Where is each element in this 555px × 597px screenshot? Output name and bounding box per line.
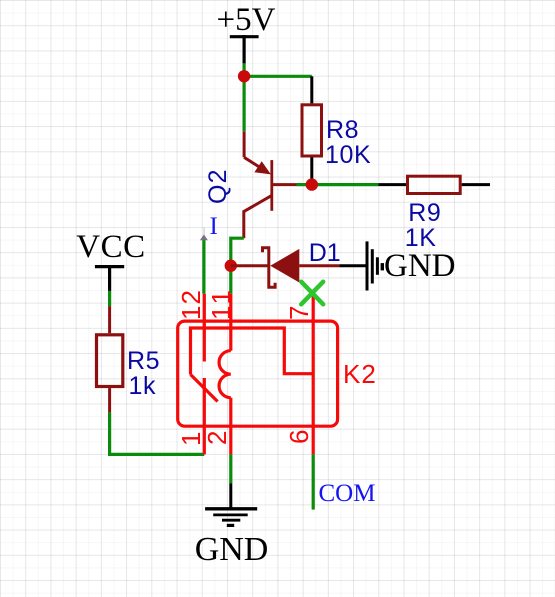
- power port +5V bar: [230, 35, 259, 63]
- label GND (bottom): [195, 533, 269, 567]
- relay K2 pin 2 (coil bottom): [229, 398, 232, 455]
- earth ground symbol: [205, 509, 257, 526]
- relay K2 inner contact frame: [191, 328, 314, 375]
- resistor R8 body: [302, 105, 322, 156]
- diode D1 anode wire from junction (dark red): [231, 264, 269, 267]
- label GND (by D1): [384, 250, 456, 283]
- wire pin 2 to GND (green): [229, 454, 232, 483]
- resistor R5 body: [97, 335, 123, 387]
- label VCC: [76, 231, 145, 264]
- resistor R9 body: [408, 176, 461, 193]
- pin number 2 (rotated): [204, 430, 230, 445]
- pin number 7 (rotated): [286, 305, 312, 320]
- resistor R5 top lead (dark red): [108, 306, 111, 333]
- resistor R8 top lead (black): [310, 76, 313, 103]
- relay K2 pin 7 / pin 6 line: [312, 295, 315, 455]
- wire I net (green vertical): [202, 237, 205, 294]
- junction dot B: [306, 178, 318, 190]
- relay K2 body: [178, 321, 338, 426]
- resistor R9 left lead (black): [378, 183, 406, 186]
- diode D1 schottky cathode bar: [263, 248, 276, 288]
- no-ERC cross on pin 7: [301, 282, 323, 305]
- transistor Q2 emitter diagonal: [244, 157, 262, 169]
- pin number 12 (rotated): [178, 289, 204, 320]
- net label COM: [319, 481, 376, 506]
- designator K2: [343, 361, 377, 387]
- wire base to R9 (green): [297, 183, 379, 186]
- value 1K: [405, 226, 437, 251]
- relay K2 pin 11 (coil top): [229, 294, 232, 351]
- pin number 1 (rotated): [178, 430, 204, 445]
- designator R5: [127, 349, 160, 374]
- faint directive stub above I net arrow: [203, 227, 205, 235]
- power ground symbol (bar style): [367, 241, 382, 290]
- diode D1 triangle: [270, 249, 299, 283]
- resistor R9 right lead (black): [462, 183, 490, 186]
- relay K2 coil arcs: [219, 351, 231, 398]
- pin number 6 (rotated): [286, 428, 312, 443]
- designator D1: [309, 241, 341, 266]
- designator R9: [408, 201, 441, 226]
- value 1k: [129, 374, 157, 399]
- resistor R8 bottom lead (black): [310, 157, 313, 184]
- net label I: [210, 214, 218, 239]
- transistor Q2 collector lead (dark red): [242, 210, 245, 238]
- designator R8: [326, 118, 359, 143]
- transistor Q2 emitter lead (dark red): [243, 131, 246, 157]
- transistor Q2 base lead (dark red): [272, 183, 297, 186]
- power port VCC bar: [95, 265, 124, 291]
- transistor Q2 emitter arrowhead: [254, 161, 271, 174]
- relay K2 pin 12: [203, 294, 206, 362]
- transistor Q2 base bar: [270, 160, 273, 211]
- resistor R5 bottom lead (dark red): [108, 388, 111, 412]
- wire D1 to GND (black): [339, 264, 366, 267]
- wire R5 to relay pin 1 (green): [110, 412, 205, 454]
- label +5V: [217, 4, 276, 37]
- wire junction to R8 top (green horizontal): [243, 75, 312, 78]
- junction dot C: [225, 260, 237, 272]
- wire collector jog (green): [231, 238, 244, 294]
- junction dot A: [238, 70, 250, 82]
- relay K2 pin 1: [203, 378, 206, 454]
- designator Q2 (rotated): [206, 168, 231, 204]
- wire pin 6 COM (green): [312, 454, 315, 509]
- transistor Q2 collector diagonal: [244, 195, 272, 211]
- wire GND stem (black): [229, 484, 232, 509]
- pin number 11 (rotated): [208, 287, 234, 320]
- value 10K: [325, 143, 371, 168]
- wire VCC to R5 (green): [108, 291, 111, 306]
- diode D1 right lead (dark red): [299, 264, 339, 267]
- relay K2 switch arm diagonal: [191, 375, 218, 402]
- wire end arrow on I net: [200, 235, 208, 241]
- wire +5V to junction (green): [243, 63, 246, 131]
